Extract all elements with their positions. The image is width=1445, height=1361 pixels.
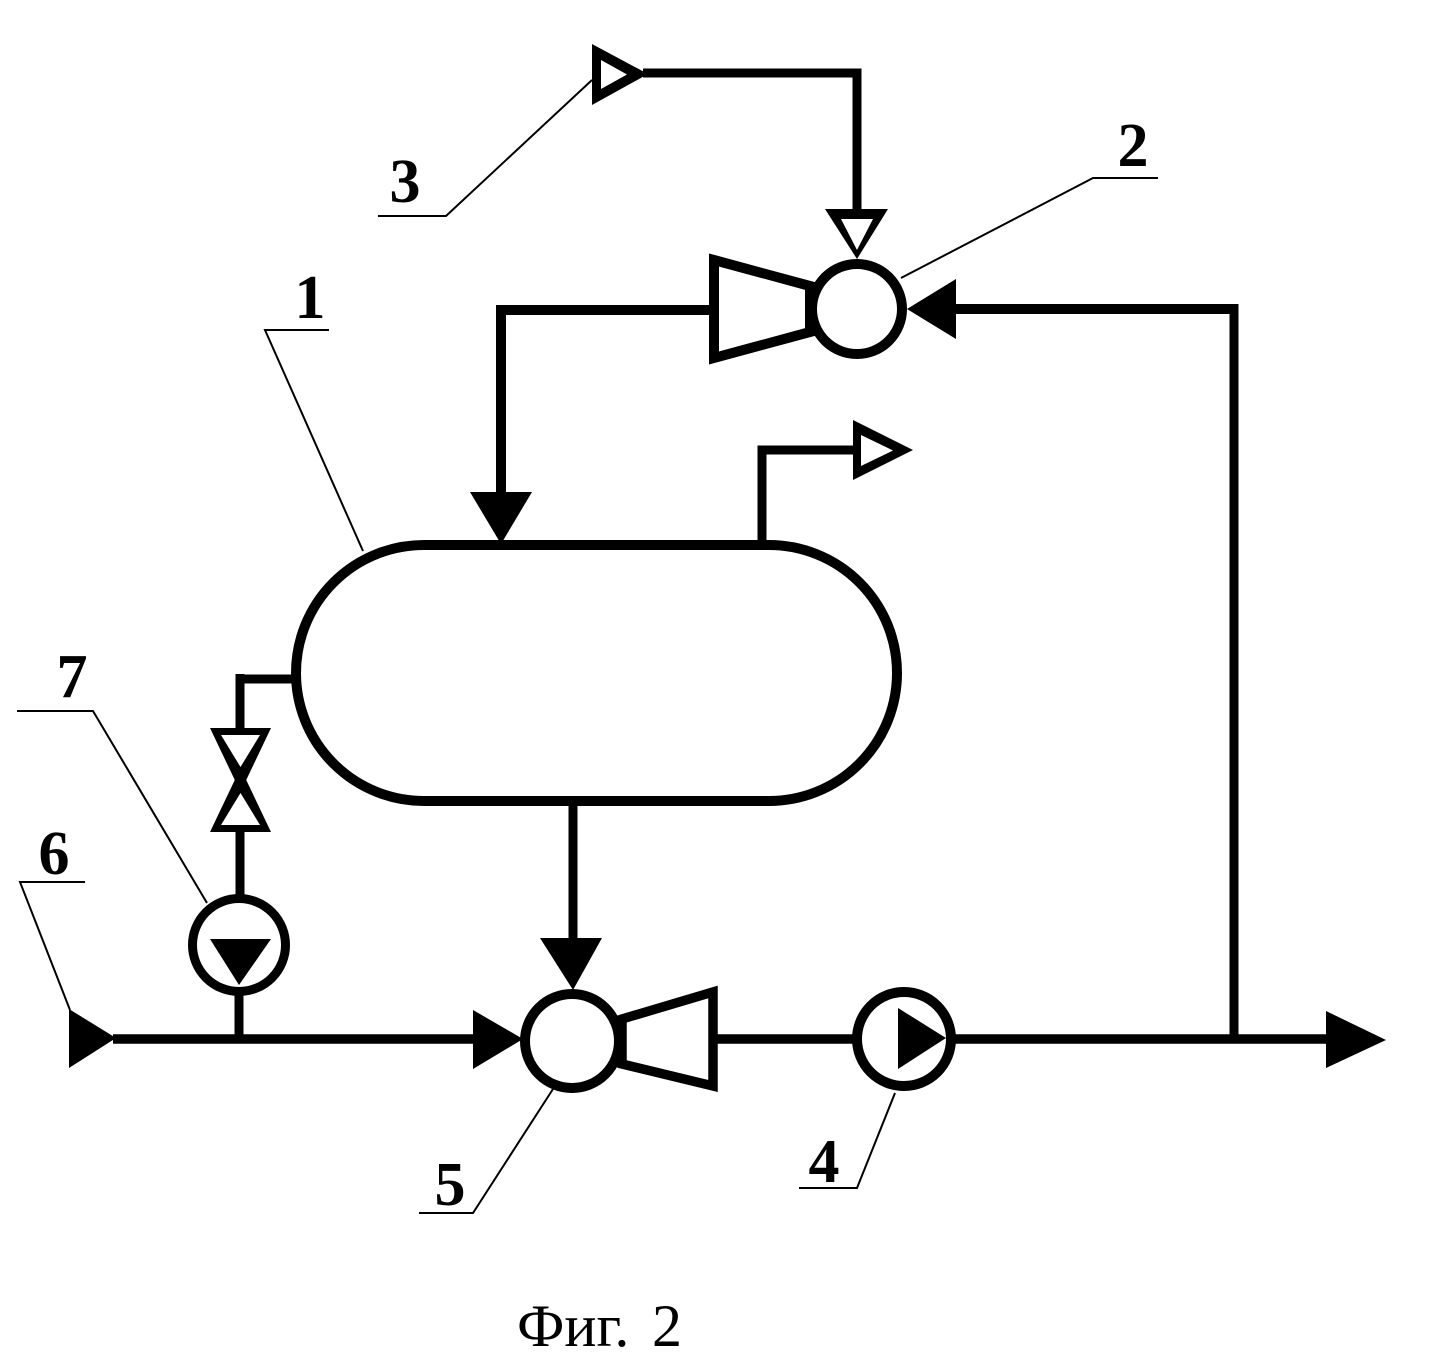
valve upper triangle <box>210 728 271 792</box>
svg-text:2: 2 <box>1118 112 1149 180</box>
mixer 5 diffuser trapezoid <box>622 992 713 1086</box>
label 7 leader <box>17 711 207 903</box>
inlet arrow 3 (hollow) <box>592 44 648 105</box>
valve lower triangle hollow <box>221 793 260 825</box>
filled arrow into ejector 2 right <box>907 279 956 339</box>
inlet arrow 6 (filled) <box>69 1009 116 1068</box>
filled arrow into mixer 5 top <box>540 938 602 990</box>
wire mixer 5 to pump 4 <box>713 1034 857 1044</box>
wire down to valve <box>236 674 245 731</box>
ejector U2 nozzle trapezoid <box>714 260 810 358</box>
wire valve to pump 7 <box>236 828 245 900</box>
wire from riser to ejector 2 nozzle <box>501 305 714 315</box>
wire from right loop to ejector 2 <box>950 304 1234 314</box>
svg-text:5: 5 <box>435 1151 466 1219</box>
wire riser down to vessel 1 <box>496 305 506 497</box>
vessel 1 capsule <box>296 545 897 801</box>
wire vessel left outlet <box>236 675 300 684</box>
mixer 5 circle <box>525 994 619 1088</box>
wire top horizontal from arrow 3 to corner <box>643 69 862 78</box>
svg-text:6: 6 <box>39 820 70 888</box>
wire from vessel 1 bottom to mixer 5 <box>569 805 578 943</box>
valve lower triangle <box>210 768 271 832</box>
label 2 leader <box>901 178 1158 278</box>
pump 7 impeller triangle (down) <box>210 939 271 985</box>
pump 4 circle <box>857 992 951 1086</box>
valve upper triangle hollow <box>221 735 260 767</box>
outlet arrow (filled) <box>1326 1011 1386 1068</box>
svg-text:4: 4 <box>809 1128 840 1196</box>
wire bottom line left <box>113 1034 477 1044</box>
label 1 leader <box>265 330 363 551</box>
svg-text:3: 3 <box>390 148 421 216</box>
wire vessel top-right outlet riser <box>762 450 858 543</box>
pump 4 impeller triangle (right) <box>898 1008 946 1069</box>
wire pump 7 to bottom line <box>235 990 244 1040</box>
wire pump 4 to outlet <box>951 1034 1330 1044</box>
ejector U2 circle <box>812 264 902 354</box>
filled arrow into mixer 5 left <box>473 1010 523 1069</box>
svg-text:Фиг.: Фиг. <box>517 1293 629 1359</box>
label 3 leader <box>378 80 592 216</box>
hollow down-arrow into ejector 2 <box>825 209 888 259</box>
wire right loop vertical <box>1230 304 1239 1040</box>
svg-text:1: 1 <box>295 264 326 332</box>
label 6 leader <box>20 882 85 1010</box>
filled arrow into vessel 1 top <box>470 492 532 544</box>
svg-text:2: 2 <box>652 1293 682 1359</box>
svg-text:7: 7 <box>57 643 88 711</box>
label 4 leader <box>799 1093 895 1188</box>
pump 7 circle <box>193 899 286 992</box>
wire vertical down to ejector 2 <box>853 69 862 215</box>
hollow outlet arrow top right <box>853 420 913 480</box>
label 5 leader <box>419 1089 553 1213</box>
